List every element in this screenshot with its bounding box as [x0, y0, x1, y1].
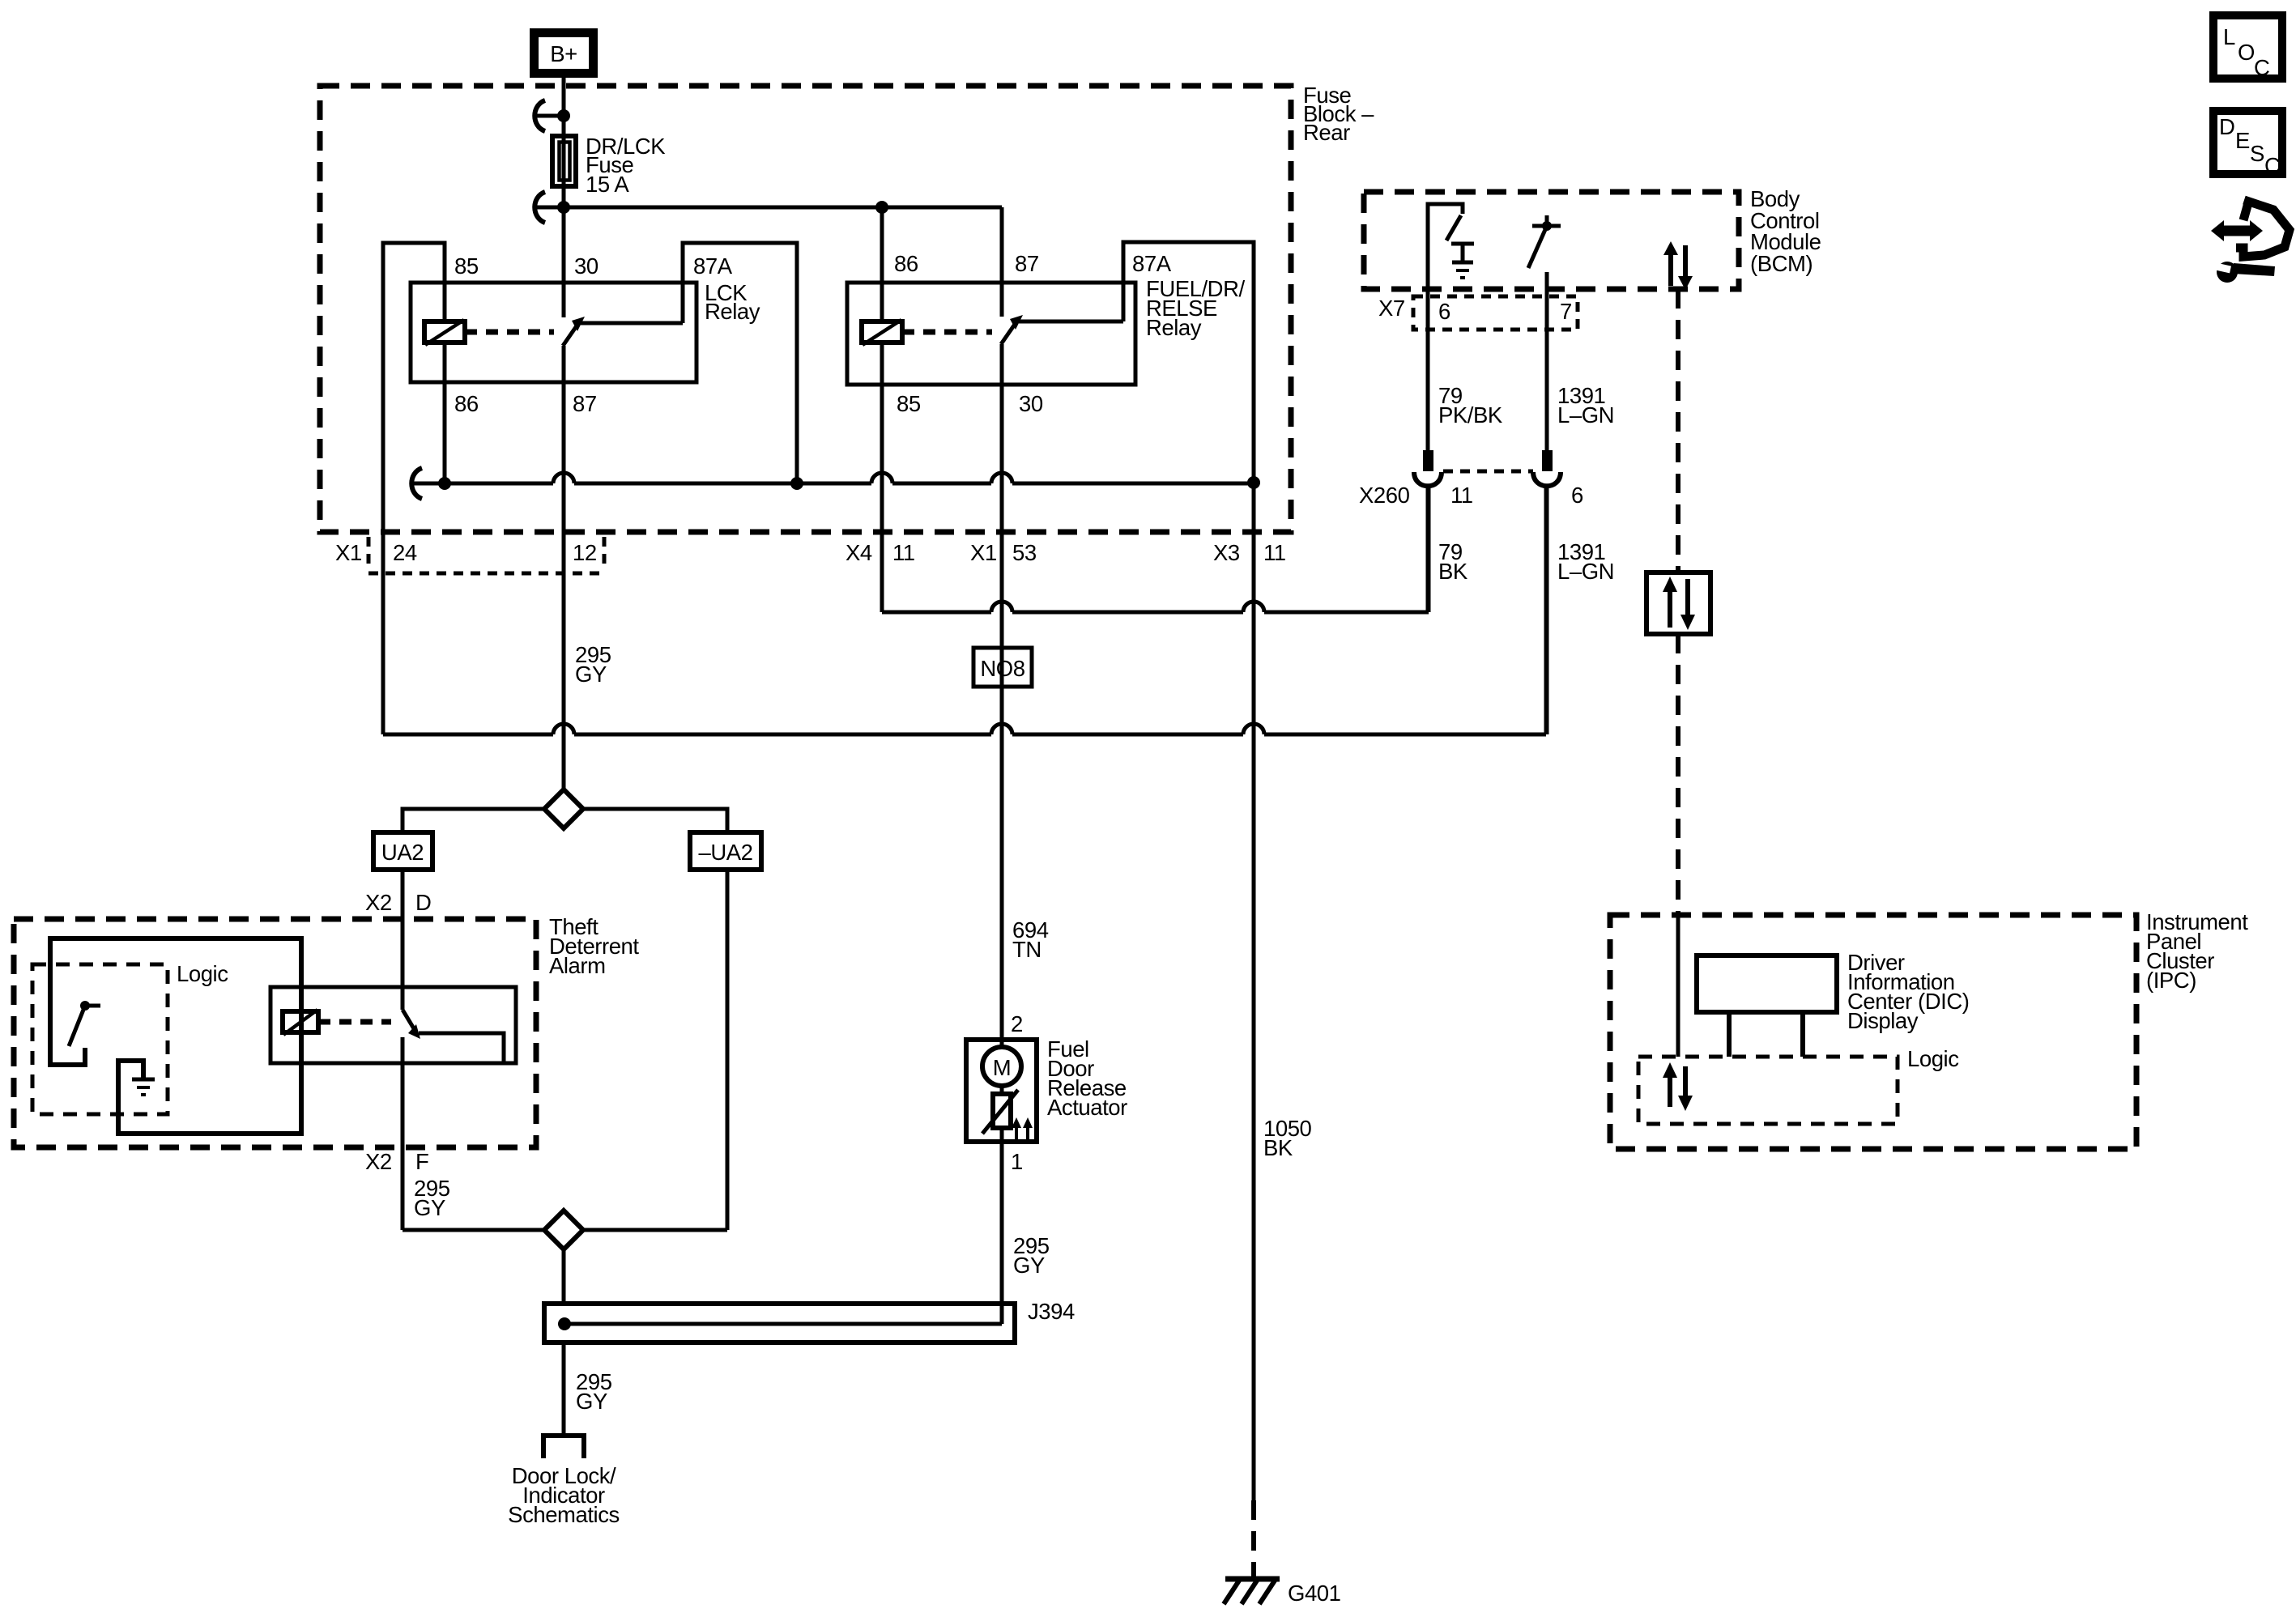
wire LCK pin 30 stub	[562, 207, 566, 317]
splice diamond upper	[544, 789, 583, 828]
wire label 79 PK/BK	[1438, 383, 1503, 428]
off-page label	[508, 1463, 620, 1527]
internal bus wire y597	[438, 473, 1254, 483]
svg-text:X1: X1	[970, 540, 997, 565]
svg-text:11: 11	[1450, 483, 1473, 508]
fuse label	[586, 134, 666, 197]
svg-text:D: D	[2219, 114, 2234, 139]
svg-text:24: 24	[393, 540, 417, 565]
Theft Deterrent Alarm label	[549, 914, 639, 978]
battery feed B+ terminal	[535, 33, 594, 74]
svg-text:BK: BK	[1438, 559, 1468, 584]
theft relay box	[270, 987, 516, 1063]
svg-text:Logic: Logic	[1907, 1046, 1959, 1071]
wire bus y907 to X260-6	[383, 488, 1546, 734]
LCK 87A contact line	[581, 321, 683, 326]
svg-text:X4: X4	[846, 540, 872, 565]
svg-text:GY: GY	[576, 1389, 607, 1414]
in-line connector NO8	[973, 648, 1032, 687]
wire 1391 L-GN lower	[1545, 488, 1549, 734]
svg-text:(IPC): (IPC)	[2146, 968, 2196, 993]
svg-text:Rear: Rear	[1303, 120, 1350, 145]
wire diamond to UA2	[403, 809, 546, 832]
wire 79 PK/BK	[1426, 289, 1430, 451]
svg-text:87: 87	[573, 391, 597, 416]
svg-text:Actuator: Actuator	[1047, 1095, 1127, 1120]
svg-text:87A: 87A	[1132, 251, 1172, 276]
FUEL/DR/RELSE relay	[847, 242, 1254, 1040]
svg-text:G401: G401	[1288, 1581, 1340, 1606]
theft actuation dashed link	[318, 1019, 391, 1025]
Fuel Door Release Actuator	[966, 1011, 1127, 1174]
Body Control Module dashed box	[1364, 192, 1739, 289]
svg-text:11: 11	[1263, 540, 1286, 565]
svg-text:30: 30	[574, 253, 598, 279]
wire label 295 GY (J394)	[576, 1369, 612, 1414]
actuator box	[966, 1040, 1037, 1142]
svg-text:(BCM): (BCM)	[1750, 251, 1813, 276]
FUEL switch blade	[1001, 323, 1016, 344]
svg-text:86: 86	[894, 251, 918, 276]
Fuse Block label	[1303, 83, 1374, 145]
wire fused feed bus to relays	[564, 206, 1002, 210]
wire diamond to -UA2	[581, 809, 727, 832]
Instrument Panel Cluster dashed box	[1610, 915, 2136, 1149]
DIC label	[1847, 950, 1969, 1033]
svg-text:Alarm: Alarm	[549, 953, 606, 978]
fuse block clip symbol top	[535, 100, 545, 131]
connector box UA2	[373, 832, 432, 870]
LCK actuation dashed link	[465, 330, 554, 335]
serial data link box	[1646, 572, 1710, 634]
wire B+ down to fuse	[562, 77, 566, 134]
svg-text:C: C	[2264, 153, 2280, 178]
svg-text:2: 2	[1011, 1011, 1023, 1036]
theft logic dashed box	[32, 964, 168, 1114]
DESC icon box	[2213, 111, 2282, 178]
wire UA2 down to theft alarm	[401, 870, 405, 1010]
svg-text:87A: 87A	[693, 253, 733, 279]
connector X260	[1359, 450, 1583, 508]
clip tick	[537, 206, 560, 210]
connector box -UA2	[690, 832, 761, 870]
wire theft to X2-F	[401, 1037, 405, 1230]
FUEL 87A contact line	[1019, 320, 1123, 324]
junction node above fuse	[557, 109, 570, 122]
connector X1 pins 24 12 sub-box	[335, 537, 604, 573]
svg-text:12: 12	[573, 540, 597, 565]
schematic jump icon (arrow + outline + wrench)	[2211, 200, 2290, 283]
LCK relay coil	[424, 321, 465, 343]
svg-text:53: 53	[1012, 540, 1037, 565]
LCK relay	[383, 243, 797, 789]
wire serial into IPC	[1676, 915, 1680, 1057]
svg-text:85: 85	[897, 391, 921, 416]
svg-text:–UA2: –UA2	[699, 840, 753, 865]
svg-text:C: C	[2254, 55, 2269, 80]
svg-text:85: 85	[454, 253, 479, 279]
wire diamond down to J394	[562, 1249, 566, 1304]
svg-text:Schematics: Schematics	[508, 1502, 620, 1527]
fuse block clip symbol bottom	[535, 192, 545, 223]
wire FUEL 85 to X260-11 y756	[882, 488, 1429, 612]
wire X2-F to lower diamond	[403, 1228, 546, 1232]
svg-text:6: 6	[1571, 483, 1583, 508]
svg-text:PK/BK: PK/BK	[1438, 402, 1503, 428]
ptc element	[993, 1094, 1011, 1128]
motor stubs	[1000, 1040, 1004, 1048]
serial data dashed wire to IPC	[1676, 634, 1680, 915]
svg-text:NO8: NO8	[980, 656, 1024, 681]
wire label 295 GY (X2-F)	[414, 1176, 450, 1220]
connector X4 pin 11	[846, 540, 915, 565]
BCM driver switch (pin7)	[1528, 215, 1561, 289]
ground symbol in logic	[132, 1079, 155, 1095]
Fuse Block - Rear dashed outline	[320, 86, 1291, 532]
svg-text:Logic: Logic	[177, 961, 228, 986]
svg-text:86: 86	[454, 391, 479, 416]
svg-text:E: E	[2235, 128, 2250, 153]
wire actuator to J394	[1000, 1142, 1004, 1324]
wire -UA2 down to lower diamond	[726, 870, 730, 1230]
svg-text:X1: X1	[335, 540, 362, 565]
theft logic switch	[69, 1001, 100, 1046]
theft alarm internal frame	[50, 938, 301, 1134]
IPC logic arrows	[1663, 1062, 1693, 1111]
LCK pin 86 wire	[443, 343, 447, 483]
theft 87a contact line	[419, 1033, 504, 1063]
wire lower diamond to -UA2 drop	[581, 1228, 727, 1232]
wire 1391 L-GN upper	[1545, 289, 1549, 451]
svg-text:87: 87	[1015, 251, 1039, 276]
LCK pin 87 wire down to splice diamond	[562, 346, 566, 789]
junction 87A tab on bus	[790, 477, 803, 490]
wire J394 down	[562, 1343, 566, 1436]
connector X2 pin D	[365, 890, 431, 915]
svg-text:TN: TN	[1012, 937, 1042, 962]
motor circle	[982, 1047, 1021, 1086]
svg-text:Relay: Relay	[705, 299, 760, 324]
wire label 295 GY (LCK 87)	[575, 642, 611, 687]
wire 79 BK	[1426, 488, 1430, 612]
svg-text:15 A: 15 A	[586, 172, 629, 197]
FUEL actuation dashed link	[902, 330, 992, 335]
svg-text:11: 11	[892, 540, 915, 565]
wire label 1050 BK	[1263, 1116, 1312, 1160]
off-page connector bracket	[543, 1436, 584, 1458]
connector X2 pin F	[365, 1149, 428, 1174]
wire label 1391 L-GN lower	[1557, 539, 1614, 584]
LCK 87A tab	[683, 243, 797, 483]
connector X3 pin 11	[1213, 540, 1286, 565]
svg-text:L: L	[2223, 24, 2235, 49]
BCM label	[1750, 186, 1821, 276]
svg-text:GY: GY	[414, 1195, 445, 1220]
wire FUEL 87 drop	[1000, 207, 1004, 317]
IPC label	[2146, 909, 2248, 993]
actuator arrows	[1015, 1126, 1018, 1140]
svg-text:J394: J394	[1028, 1299, 1075, 1324]
svg-text:X260: X260	[1359, 483, 1410, 508]
svg-text:M: M	[993, 1055, 1011, 1080]
FUEL 87A tab	[1123, 242, 1254, 483]
fuse DR/LCK 15A	[552, 131, 576, 207]
svg-text:BK: BK	[1263, 1135, 1293, 1160]
svg-text:S: S	[2250, 141, 2264, 166]
svg-text:F: F	[415, 1149, 428, 1174]
LOC icon box	[2213, 15, 2282, 80]
svg-text:1: 1	[1011, 1149, 1023, 1174]
serial data dashed wire BCM to data link	[1676, 289, 1680, 572]
svg-text:D: D	[415, 890, 431, 915]
svg-text:GY: GY	[1013, 1253, 1045, 1278]
theft relay coil	[283, 1011, 318, 1032]
FUEL pin 85 wire	[880, 343, 884, 612]
svg-text:Relay: Relay	[1146, 315, 1202, 340]
splice pack J394	[544, 1299, 1075, 1343]
LCK relay box	[411, 283, 696, 382]
wire 1050 BK down	[1252, 483, 1256, 1500]
connector X1 pin 53	[970, 540, 1037, 565]
svg-text:30: 30	[1019, 391, 1043, 416]
svg-text:6: 6	[1438, 299, 1450, 324]
wire label 1391 L-GN	[1557, 383, 1614, 428]
svg-text:X7: X7	[1378, 296, 1405, 321]
splice diamond lower	[544, 1211, 583, 1249]
FUEL relay coil	[862, 321, 902, 343]
internal bus clip symbol	[411, 468, 422, 499]
wire FUEL 86 drop	[880, 207, 884, 321]
svg-text:UA2: UA2	[381, 840, 424, 865]
svg-text:O: O	[2238, 40, 2255, 65]
DIC display box	[1697, 955, 1837, 1057]
junction at FUEL relay 86 branch	[875, 201, 888, 214]
BCM driver switch to ground (pin6)	[1428, 204, 1474, 289]
Theft Deterrent Alarm dashed box	[14, 919, 536, 1147]
svg-text:X2: X2	[365, 1149, 392, 1174]
junction bus to X3-11 wire	[1247, 476, 1260, 489]
FUEL pin 30 wire down	[1000, 344, 1004, 1040]
svg-text:B+: B+	[550, 41, 577, 66]
svg-text:7: 7	[1560, 299, 1572, 324]
connector X7 dashed box	[1378, 296, 1578, 330]
svg-text:X2: X2	[365, 890, 392, 915]
FUEL relay box	[847, 283, 1135, 385]
svg-text:Display: Display	[1847, 1008, 1919, 1033]
wire label 295 GY (actuator)	[1013, 1233, 1050, 1278]
LCK coil wire	[443, 283, 447, 322]
wire label 694 TN	[1012, 917, 1049, 962]
svg-text:X3: X3	[1213, 540, 1240, 565]
theft switch blade	[403, 1010, 415, 1030]
ground G401	[1224, 1579, 1340, 1606]
junction 86 on bus	[438, 477, 451, 490]
svg-text:GY: GY	[575, 662, 607, 687]
svg-text:L–GN: L–GN	[1557, 559, 1614, 584]
wire label 79 BK	[1438, 539, 1468, 584]
junction node below fuse	[557, 201, 570, 214]
LCK pin 85 loop wire	[383, 243, 445, 734]
BCM serial data arrows	[1663, 241, 1693, 290]
clip tick	[537, 114, 560, 118]
IPC logic dashed box	[1638, 1057, 1898, 1124]
svg-text:L–GN: L–GN	[1557, 402, 1614, 428]
LCK switch blade	[563, 325, 577, 346]
